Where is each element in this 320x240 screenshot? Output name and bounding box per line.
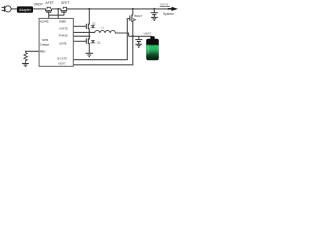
wire LGATE: [73, 40, 86, 42]
svg-text:VADP: VADP: [34, 3, 44, 7]
BFET body diode: [134, 19, 136, 21]
wire SRP sense pin: [73, 35, 89, 37]
ground of C2: [135, 44, 142, 47]
wire PROG: [26, 51, 40, 52]
adapter A1: [17, 6, 33, 12]
wire VBAT node to battery: [129, 35, 152, 37]
SFET body bump: [63, 7, 66, 9]
junction rail/BFET: [132, 8, 134, 10]
wire PHASE: [73, 31, 94, 33]
transistor Q2 bars: [86, 38, 89, 44]
svg-text:System: System: [163, 12, 174, 16]
svg-text:VSYS: VSYS: [160, 3, 168, 7]
wire CMSRC: [57, 9, 59, 19]
svg-text:L1: L1: [101, 28, 104, 30]
wire gate drops and tie to ACGATE pin: [49, 12, 64, 18]
wire phase to Q2 drain: [88, 32, 90, 39]
svg-text:NPB: NPB: [42, 38, 48, 42]
svg-text:Q1: Q1: [92, 22, 96, 25]
labels: [34, 1, 174, 65]
AC plug P1 prongs: [2, 6, 5, 12]
wire BFET source to VBAT pin: [73, 21, 133, 65]
wire plug to adapter: [11, 8, 17, 10]
Q1 body diode: [91, 25, 96, 28]
IC U1 box: [39, 18, 73, 66]
junction rail/C1: [153, 8, 155, 10]
AC plug P1 body: [5, 6, 11, 12]
wire Q2 source down: [88, 43, 90, 53]
wire rail to C1: [153, 9, 155, 13]
svg-text:Charger: Charger: [40, 43, 50, 47]
svg-text:VBAT: VBAT: [143, 32, 151, 36]
connection wires: [11, 9, 170, 65]
ground of C1: [151, 17, 158, 20]
wire rail to BFET drain: [132, 9, 134, 15]
wire adapter to AFET: [33, 8, 46, 10]
AFET body bump: [47, 7, 50, 9]
arrow head to system: [172, 7, 178, 11]
junction sense/drain: [88, 35, 90, 37]
transistor SFET bars: [61, 9, 68, 12]
svg-text:SFET: SFET: [61, 1, 70, 5]
junction AFET/SFET node: [57, 8, 59, 10]
wire rail SFET to arrow: [67, 8, 171, 10]
arrow shaft: [168, 8, 172, 10]
wire Q1 source to phase: [88, 29, 90, 33]
wire L1 out with jog: [115, 33, 129, 36]
transistor AFET bars: [45, 9, 52, 12]
ground of Q2: [86, 53, 94, 56]
curved / angled shapes: [5, 6, 136, 64]
junction phase: [88, 31, 90, 33]
battery BT1: [146, 36, 159, 60]
junction VBAT node: [132, 35, 134, 37]
capacitor C1 plates: [151, 13, 158, 17]
svg-text:Q2: Q2: [97, 42, 101, 45]
wire UGATE: [73, 25, 86, 27]
junction dots: [57, 8, 155, 37]
svg-text:AFET: AFET: [45, 1, 54, 5]
Q2 body diode: [91, 40, 96, 43]
capacitor C2 plates: [135, 40, 142, 44]
VSYS underline: [160, 5, 170, 8]
wire rail AFET-SFET: [52, 8, 62, 10]
transistor BFET bars: [130, 14, 133, 22]
transistor Q1 bars: [86, 24, 89, 30]
svg-text:Adapter: Adapter: [19, 8, 32, 12]
inductor L1 coil: [95, 30, 116, 33]
resistor R1 zigzag: [24, 53, 27, 64]
dark component symbols: [2, 6, 158, 67]
wire C2 stub: [138, 36, 140, 39]
svg-text:BFET: BFET: [134, 14, 142, 18]
junction rail/Q1: [88, 8, 90, 10]
ground of R1: [22, 64, 29, 67]
wire BGATE: [73, 19, 130, 60]
wire rail to Q1 drain: [88, 9, 90, 25]
